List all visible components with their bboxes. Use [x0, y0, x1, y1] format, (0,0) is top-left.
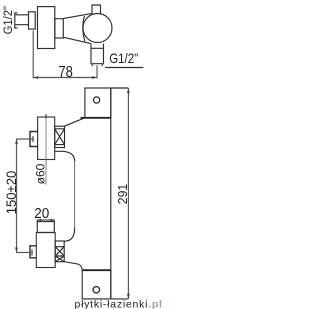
lower body shoulder — [64, 262, 82, 271]
knob top button — [92, 5, 101, 14]
dimension 20 line and arrows — [37, 219, 54, 221]
svg-text:78: 78 — [58, 64, 73, 81]
svg-text:G1/2": G1/2" — [109, 50, 138, 66]
svg-text:G1/2": G1/2" — [3, 6, 15, 34]
riser lower bend — [64, 228, 74, 241]
diverter crossed box (lower) — [55, 241, 64, 262]
knob centerline — [45, 114, 47, 118]
leader underline for outlet label — [105, 67, 143, 69]
lower union bracket — [30, 246, 36, 258]
lower union center tick — [31, 250, 33, 256]
wall line — [110, 88, 112, 299]
valve collar (side view) — [55, 19, 64, 38]
dimension 150±20 arrows — [15, 139, 18, 253]
valve body taper — [63, 13, 92, 43]
dimension 291 arrows — [127, 88, 130, 299]
outlet pipe chamfer ticks — [91, 64, 103, 66]
knob base ellipse arc — [83, 16, 85, 41]
upper wall plate thick bottom edge — [81, 117, 111, 119]
lower body line and riser bend (top) — [55, 151, 75, 161]
lower wall plate thick top edge — [82, 269, 111, 271]
riser pipe line — [74, 161, 76, 228]
150 dim upper extension — [17, 138, 34, 140]
dimension 150±20 line — [16, 139, 18, 253]
291 bottom extension line — [111, 298, 129, 300]
svg-text:150±20: 150±20 — [4, 171, 19, 215]
upper union bracket — [30, 132, 38, 147]
temperature knob (front view) — [38, 117, 55, 160]
union nut (side view) — [29, 12, 36, 29]
inlet stub pipe — [15, 15, 28, 25]
upper union center tick — [32, 136, 34, 142]
outlet stub box — [37, 220, 54, 233]
upper plate screw hole — [94, 97, 100, 103]
upper wall plate — [85, 88, 111, 118]
svg-text:ø60: ø60 — [33, 163, 47, 184]
svg-text:20: 20 — [34, 206, 49, 222]
upper connector crossed box — [55, 126, 65, 147]
diverter knob (front view) — [36, 233, 55, 268]
svg-text:291: 291 — [115, 184, 130, 205]
lower plate screw hole — [93, 287, 99, 293]
lower wall plate — [82, 270, 111, 299]
wall escutcheon block (side view) — [38, 7, 55, 49]
dimension 78 arrows — [33, 76, 97, 79]
inlet flange — [15, 12, 18, 28]
shower outlet pipe — [91, 44, 104, 64]
291 top extension line — [111, 87, 129, 89]
dimension 78 line — [33, 77, 97, 79]
dimension 291 line — [127, 88, 129, 299]
150 dim lower extension — [17, 252, 31, 254]
dimension 78 extension lines — [33, 31, 97, 79]
svg-text:płytki-łazienki.pl: płytki-łazienki.pl — [75, 299, 163, 309]
upper body shoulder curve — [65, 118, 85, 126]
knob (side view circle) — [83, 14, 112, 43]
